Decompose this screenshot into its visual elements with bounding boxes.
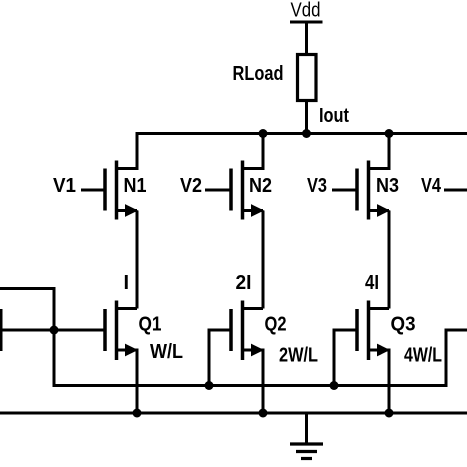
svg-text:N1: N1 bbox=[124, 175, 147, 197]
transistor N1 bbox=[81, 134, 138, 220]
node Q3 gate junction on rail bbox=[330, 381, 339, 390]
svg-text:RLoad: RLoad bbox=[233, 63, 284, 85]
node Q3 source junction on ground rail bbox=[385, 409, 394, 418]
wire Qref drain over top to gate node and down to mirror gate rail bbox=[0, 289, 54, 388]
svg-text:N3: N3 bbox=[376, 175, 399, 197]
wire N1 source to Q1 drain bbox=[136, 211, 139, 309]
wire Vdd bar to RLoad bbox=[305, 22, 308, 54]
svg-text:V2: V2 bbox=[180, 175, 202, 197]
ground bbox=[290, 413, 323, 459]
node Q1 source junction on ground rail bbox=[133, 409, 142, 418]
wire N2 source to Q2 drain bbox=[262, 211, 265, 309]
wire mirror gate rail bbox=[54, 384, 446, 387]
svg-text:2I: 2I bbox=[236, 272, 252, 294]
svg-text:Q1: Q1 bbox=[139, 314, 162, 336]
svg-text:Iout: Iout bbox=[319, 105, 349, 127]
svg-text:N2: N2 bbox=[249, 175, 272, 197]
transistor Q2 bbox=[231, 301, 264, 415]
svg-text:2W/L: 2W/L bbox=[279, 345, 318, 367]
wire output rail bbox=[136, 132, 467, 135]
wire Q2 gate from mirror gate rail bbox=[209, 330, 232, 387]
transistor Qref diode-connected reference, cut off at left edge bbox=[0, 309, 3, 351]
power supply bar Vdd bbox=[290, 21, 323, 24]
node Q2 source junction on ground rail bbox=[259, 409, 268, 418]
wire V4 gate lead to N4 off right edge bbox=[444, 189, 467, 192]
node gate junction diode connection bbox=[50, 326, 59, 335]
wire ground rail bbox=[0, 412, 467, 415]
wire Qref gate to Q1 gate bbox=[0, 329, 106, 332]
transistor Q1 bbox=[105, 301, 138, 415]
node Q2 gate junction on rail bbox=[205, 381, 214, 390]
transistor N2 bbox=[205, 134, 264, 220]
wire Q3 gate from mirror gate rail bbox=[334, 330, 358, 387]
node Iout junction bbox=[302, 129, 311, 138]
svg-text:I: I bbox=[124, 272, 130, 294]
wire N3 source to Q3 drain bbox=[388, 211, 391, 309]
svg-text:V4: V4 bbox=[421, 175, 442, 197]
transistor Q3 bbox=[357, 301, 390, 415]
svg-text:Q3: Q3 bbox=[391, 314, 416, 336]
svg-text:Q2: Q2 bbox=[265, 314, 287, 336]
svg-text:Vdd: Vdd bbox=[291, 0, 321, 22]
wire Q4 gate off right edge bbox=[446, 330, 467, 387]
wire RLoad to Iout node bbox=[305, 100, 308, 135]
svg-text:V1: V1 bbox=[53, 175, 76, 197]
resistor RLoad bbox=[298, 55, 317, 101]
node junction N3 drain on rail bbox=[385, 129, 394, 138]
svg-text:4I: 4I bbox=[365, 272, 379, 294]
svg-text:4W/L: 4W/L bbox=[404, 345, 442, 367]
svg-text:V3: V3 bbox=[307, 175, 327, 197]
svg-text:W/L: W/L bbox=[150, 341, 183, 363]
transistor N3 bbox=[332, 134, 390, 220]
node junction N2 drain on rail bbox=[259, 129, 268, 138]
